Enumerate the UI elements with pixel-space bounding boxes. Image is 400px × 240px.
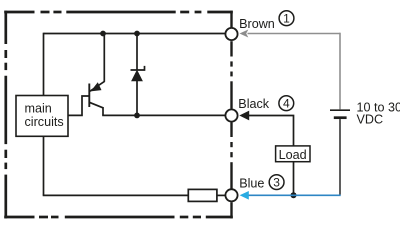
terminal 3 Blue [225,189,237,201]
sensor outline (dashed enclosure border) [4,11,233,219]
pin number 3 [269,175,284,190]
zener diode D1 [131,34,145,116]
wire: resistor to Blue terminal [217,194,225,196]
wire: base lead from main circuits to transistor [68,96,89,115]
wire: +V top rail [44,33,226,35]
svg-text:Blue: Blue [239,177,264,191]
wire: left vertical from top rail to main circuits [43,33,45,96]
wire: collector rail to Black terminal [102,114,225,116]
resistor R1 (blue line) [188,189,217,201]
svg-text:VDC: VDC [357,112,384,126]
arrow into Brown terminal [240,30,249,38]
svg-text:3: 3 [273,175,280,189]
battery 10 to 30 VDC [330,110,350,118]
wire: battery - lead down to blue line [339,119,341,195]
label 10 to 30 VDC [357,101,400,127]
junction: zener cathode on top rail [134,31,140,37]
arrow into Black terminal [239,111,249,121]
junction: zener anode on collector rail [134,113,140,119]
pin number 4 [279,96,294,111]
svg-text:4: 4 [283,97,290,111]
junction: emitter on top rail [100,31,106,37]
terminal 1 Brown [225,28,237,40]
pin number 1 [279,11,294,26]
svg-text:Load: Load [279,148,307,162]
transistor Q1 (PNP output) [89,34,104,116]
svg-text:main: main [25,102,52,116]
main circuits block [16,96,68,137]
wire: black lead from terminal 4 to load [248,116,294,146]
svg-text:circuits: circuits [25,115,64,129]
junction: load on blue line [291,192,297,198]
arrow into Blue terminal [240,191,249,200]
load box [276,146,310,162]
terminal 4 Black [225,109,237,121]
svg-text:1: 1 [283,12,290,26]
wire: load to blue line junction [293,162,295,196]
wire: blue lead (0 V) from battery - to terminal 3 [248,194,341,196]
wire: 0V bottom rail to resistor [43,194,189,196]
svg-text:Brown: Brown [239,17,275,31]
wire: main circuits down to 0V bottom rail [43,136,45,195]
wire: brown lead (gray) from battery + to terminal 1 [248,33,341,110]
svg-text:Black: Black [238,97,269,111]
